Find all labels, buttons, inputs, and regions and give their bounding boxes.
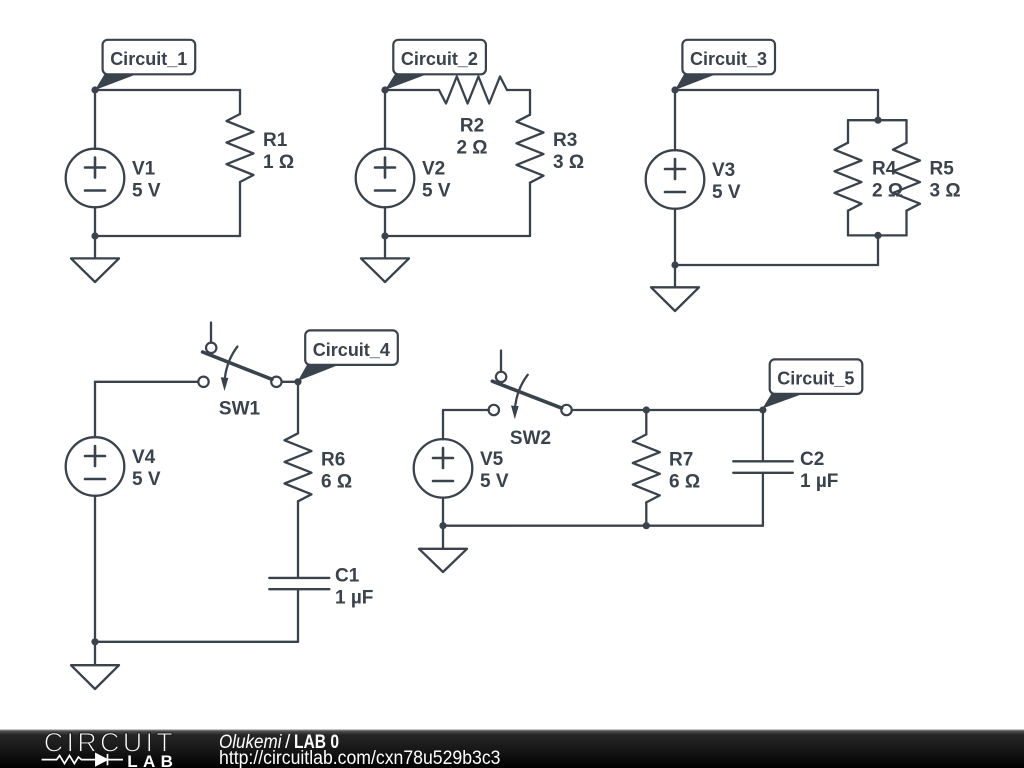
svg-text:V4: V4 [132,447,156,468]
wire R4 bottom lead [847,211,849,236]
voltage source V2 [356,149,415,208]
svg-text:SW1: SW1 [219,399,261,420]
ground 4 [71,642,119,689]
wire bottom rail C5 [443,525,763,527]
wire R7 bottom lead [645,502,647,525]
svg-text:1 Ω: 1 Ω [263,152,294,173]
svg-text:V2: V2 [422,159,445,180]
resistor R1 [227,114,254,182]
svg-text:R6: R6 [321,449,345,470]
voltage source V3 [646,150,705,209]
svg-text:http://circuitlab.com/cxn78u52: http://circuitlab.com/cxn78u529b3c3 [219,748,501,768]
wire switch to node [282,381,298,383]
wire down from bracket [877,235,879,265]
node C3 bottom [671,261,678,268]
voltage source V5 [414,439,473,498]
svg-text:R5: R5 [930,159,955,180]
svg-text:V1: V1 [132,159,156,180]
svg-text:R2: R2 [460,116,484,137]
node C2 bottom [381,232,388,239]
svg-text:5 V: 5 V [132,181,161,202]
node C4 switch output [294,378,301,385]
wire R7 top lead [645,410,647,434]
ground 2 [361,236,409,282]
ground 3 [651,265,699,311]
wire V2 bottom [384,207,386,236]
footer bar background [0,730,1024,768]
svg-text:5 V: 5 V [712,182,741,203]
node C5 bottom left [439,522,446,529]
svg-text:6 Ω: 6 Ω [321,471,352,492]
wire V3 bottom [674,209,676,265]
node C5 R7 top [643,406,650,413]
svg-text:2 Ω: 2 Ω [456,138,487,159]
svg-text:3 Ω: 3 Ω [553,152,584,173]
svg-text:R1: R1 [263,130,288,151]
wire R3 top [529,90,531,115]
svg-text:3 Ω: 3 Ω [930,181,961,202]
switch SW1 [210,323,212,343]
svg-text:SW2: SW2 [510,428,551,449]
resistor R3 [517,115,544,183]
wire C1 bottom [297,589,299,642]
wire switch to R7 node [572,409,647,411]
node C3 junction top [874,117,881,124]
wire bottom rail C3 [675,264,878,266]
wire V3 top [674,90,676,150]
svg-text:R3: R3 [553,130,577,151]
wire V5 top [442,410,444,439]
wire right top C1 [239,90,241,114]
logo resistor-diode squiggle [42,754,123,765]
wire bottom rail C1 [95,235,240,237]
wire top rail C3 [675,89,878,91]
wire R6 to C1 [297,501,299,578]
wire V5 bottom [442,498,444,526]
wire top rail C1 [95,89,240,91]
wire V1 top [94,90,96,149]
wire R4 top lead [847,120,849,143]
wire C2 top lead [762,410,764,461]
wire top rail C4 left [95,381,198,383]
wire V2 top [384,90,386,149]
svg-text:C2: C2 [800,449,824,470]
voltage source V4 [66,437,125,496]
svg-text:R4: R4 [872,159,897,180]
wire bottom rail C2 [385,235,530,237]
svg-text:R7: R7 [669,450,693,471]
svg-text:V3: V3 [712,160,735,181]
flag Circuit_1 [95,73,141,91]
wire V1 bottom [94,207,96,236]
resistor R5 [893,143,920,211]
flag Circuit_3 [675,73,721,91]
svg-text:Circuit_3: Circuit_3 [690,49,767,69]
node C3 top [671,86,678,93]
node C5 C2 top [759,406,766,413]
wire bottom rail C4 [95,641,298,643]
resistor R2 [439,77,507,104]
wire right bottom C1 [239,182,241,236]
svg-text:Circuit_1: Circuit_1 [110,49,187,69]
svg-text:Circuit_4: Circuit_4 [313,340,390,360]
svg-text:5 V: 5 V [132,469,161,490]
voltage source V1 [66,149,125,208]
flag Circuit_5 [762,392,808,409]
wire bracket bottom C3 [848,234,907,236]
resistor R6 [285,433,312,501]
resistor R4 [835,143,862,211]
wire R3 bottom [529,183,531,236]
wire R5 top lead [905,120,907,143]
wire top rail C2 left [385,89,439,91]
node C1 bottom [91,232,98,239]
node C5 R7 bottom [643,522,650,529]
wire R6 top lead [297,382,299,434]
wire V4 bottom [94,496,96,642]
ground 1 [71,236,119,282]
node C3 junction bottom [874,232,881,239]
node C1 top [91,86,98,93]
svg-text:2 Ω: 2 Ω [872,181,903,202]
wire top rail C5 left [443,409,489,411]
wire down to parallel junction [877,90,879,120]
svg-text:5 V: 5 V [480,471,509,492]
svg-text:1 µF: 1 µF [335,588,373,609]
svg-text:Circuit_2: Circuit_2 [401,49,478,69]
svg-text:V5: V5 [480,449,504,470]
svg-text:5 V: 5 V [422,181,451,202]
ground 5 [419,526,467,572]
wire C2 bottom lead [762,473,764,526]
svg-text:Circuit_5: Circuit_5 [777,369,854,389]
svg-text:6 Ω: 6 Ω [669,472,700,493]
resistor R7 [633,434,660,502]
flag Circuit_2 [385,73,432,91]
svg-text:LAB: LAB [127,752,173,768]
wire bracket top C3 [848,119,907,121]
node C2 top [381,86,388,93]
wire R7 node to C2 node [646,409,763,411]
wire R5 bottom lead [905,211,907,236]
svg-text:C1: C1 [335,566,360,587]
flag Circuit_4 [298,363,344,381]
capacitor C1 [269,578,329,589]
node C4 bottom [91,638,98,645]
wire top rail C2 right [507,89,530,91]
switch SW2 [500,351,502,372]
capacitor C2 [733,461,793,473]
wire V4 top [94,382,96,437]
svg-text:1 µF: 1 µF [800,471,838,492]
